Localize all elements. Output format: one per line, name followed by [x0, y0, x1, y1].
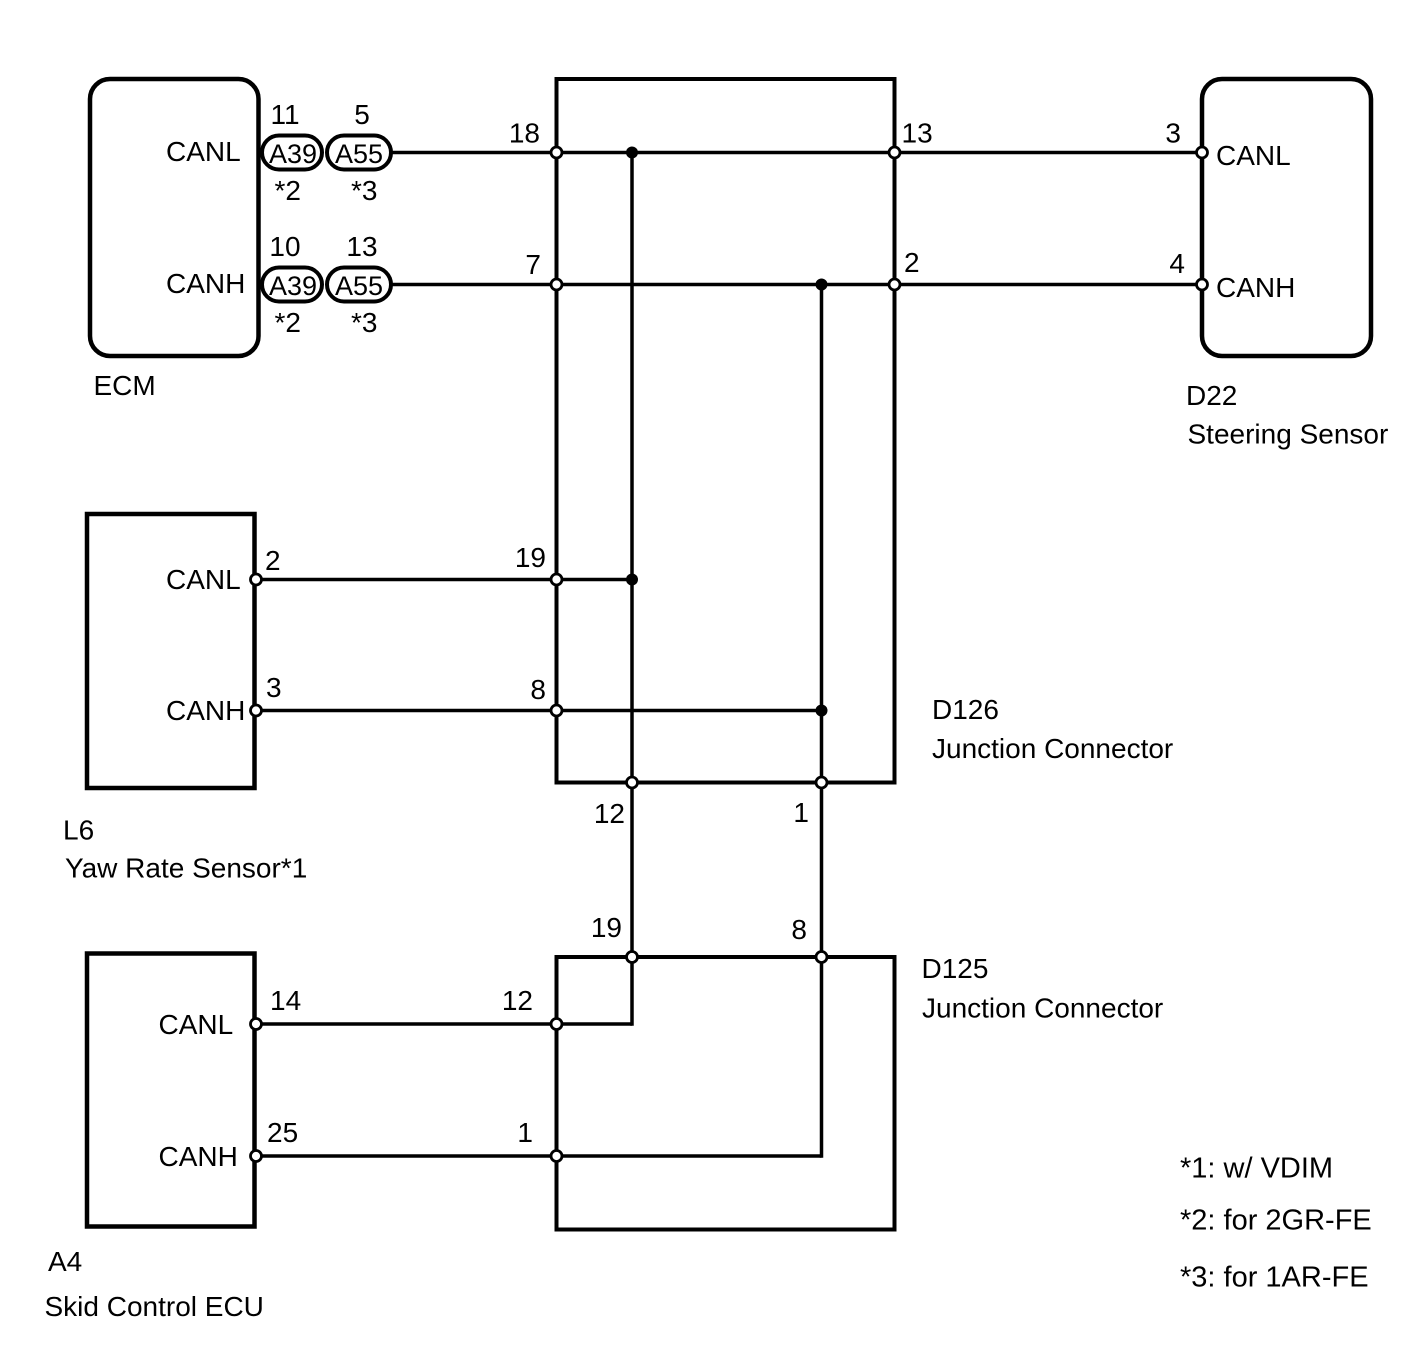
svg-text:5: 5 — [354, 99, 370, 130]
svg-text:2: 2 — [904, 247, 920, 278]
svg-text:13: 13 — [346, 231, 377, 262]
svg-text:A39: A39 — [269, 139, 317, 169]
svg-text:A39: A39 — [269, 271, 317, 301]
svg-text:12: 12 — [594, 798, 625, 829]
svg-text:*2: for 2GR-FE: *2: for 2GR-FE — [1180, 1205, 1372, 1237]
svg-text:*3: *3 — [351, 175, 377, 206]
svg-text:CANL: CANL — [1216, 140, 1291, 171]
svg-text:D125: D125 — [922, 953, 989, 984]
svg-text:D126: D126 — [932, 694, 999, 725]
svg-text:14: 14 — [270, 985, 301, 1016]
svg-text:A55: A55 — [335, 139, 383, 169]
svg-text:19: 19 — [591, 912, 622, 943]
svg-text:ECM: ECM — [94, 370, 156, 401]
svg-text:CANH: CANH — [159, 1141, 238, 1172]
svg-text:13: 13 — [902, 118, 933, 149]
svg-text:A4: A4 — [48, 1246, 82, 1277]
svg-text:CANH: CANH — [1216, 272, 1295, 303]
svg-text:11: 11 — [270, 99, 299, 130]
svg-text:10: 10 — [269, 231, 300, 262]
svg-text:A55: A55 — [335, 271, 383, 301]
svg-text:D22: D22 — [1186, 380, 1237, 411]
svg-text:8: 8 — [791, 914, 807, 945]
svg-text:4: 4 — [1169, 248, 1185, 279]
svg-text:25: 25 — [267, 1117, 298, 1148]
svg-text:3: 3 — [266, 672, 282, 703]
svg-text:8: 8 — [530, 674, 546, 705]
svg-text:Junction Connector: Junction Connector — [932, 733, 1173, 764]
svg-text:18: 18 — [509, 118, 540, 149]
svg-text:19: 19 — [515, 542, 546, 573]
svg-text:Steering Sensor: Steering Sensor — [1188, 419, 1389, 450]
svg-text:CANL: CANL — [166, 564, 241, 595]
svg-text:12: 12 — [502, 985, 533, 1016]
svg-text:*2: *2 — [275, 175, 301, 206]
svg-text:CANL: CANL — [166, 136, 241, 167]
svg-text:*3: *3 — [351, 307, 377, 338]
svg-text:3: 3 — [1165, 118, 1181, 149]
svg-text:CANL: CANL — [159, 1009, 234, 1040]
svg-text:Junction Connector: Junction Connector — [922, 993, 1163, 1024]
svg-text:Skid Control ECU: Skid Control ECU — [45, 1291, 264, 1322]
svg-text:Yaw Rate Sensor*1: Yaw Rate Sensor*1 — [65, 853, 307, 884]
svg-text:CANH: CANH — [166, 695, 245, 726]
svg-text:2: 2 — [265, 545, 281, 576]
svg-text:*2: *2 — [275, 307, 301, 338]
svg-text:1: 1 — [517, 1117, 533, 1148]
svg-text:L6: L6 — [63, 815, 94, 846]
svg-text:*1: w/ VDIM: *1: w/ VDIM — [1180, 1153, 1333, 1185]
svg-text:CANH: CANH — [166, 268, 245, 299]
svg-text:7: 7 — [525, 249, 541, 280]
svg-text:1: 1 — [793, 797, 809, 828]
svg-text:*3: for 1AR-FE: *3: for 1AR-FE — [1180, 1262, 1369, 1294]
